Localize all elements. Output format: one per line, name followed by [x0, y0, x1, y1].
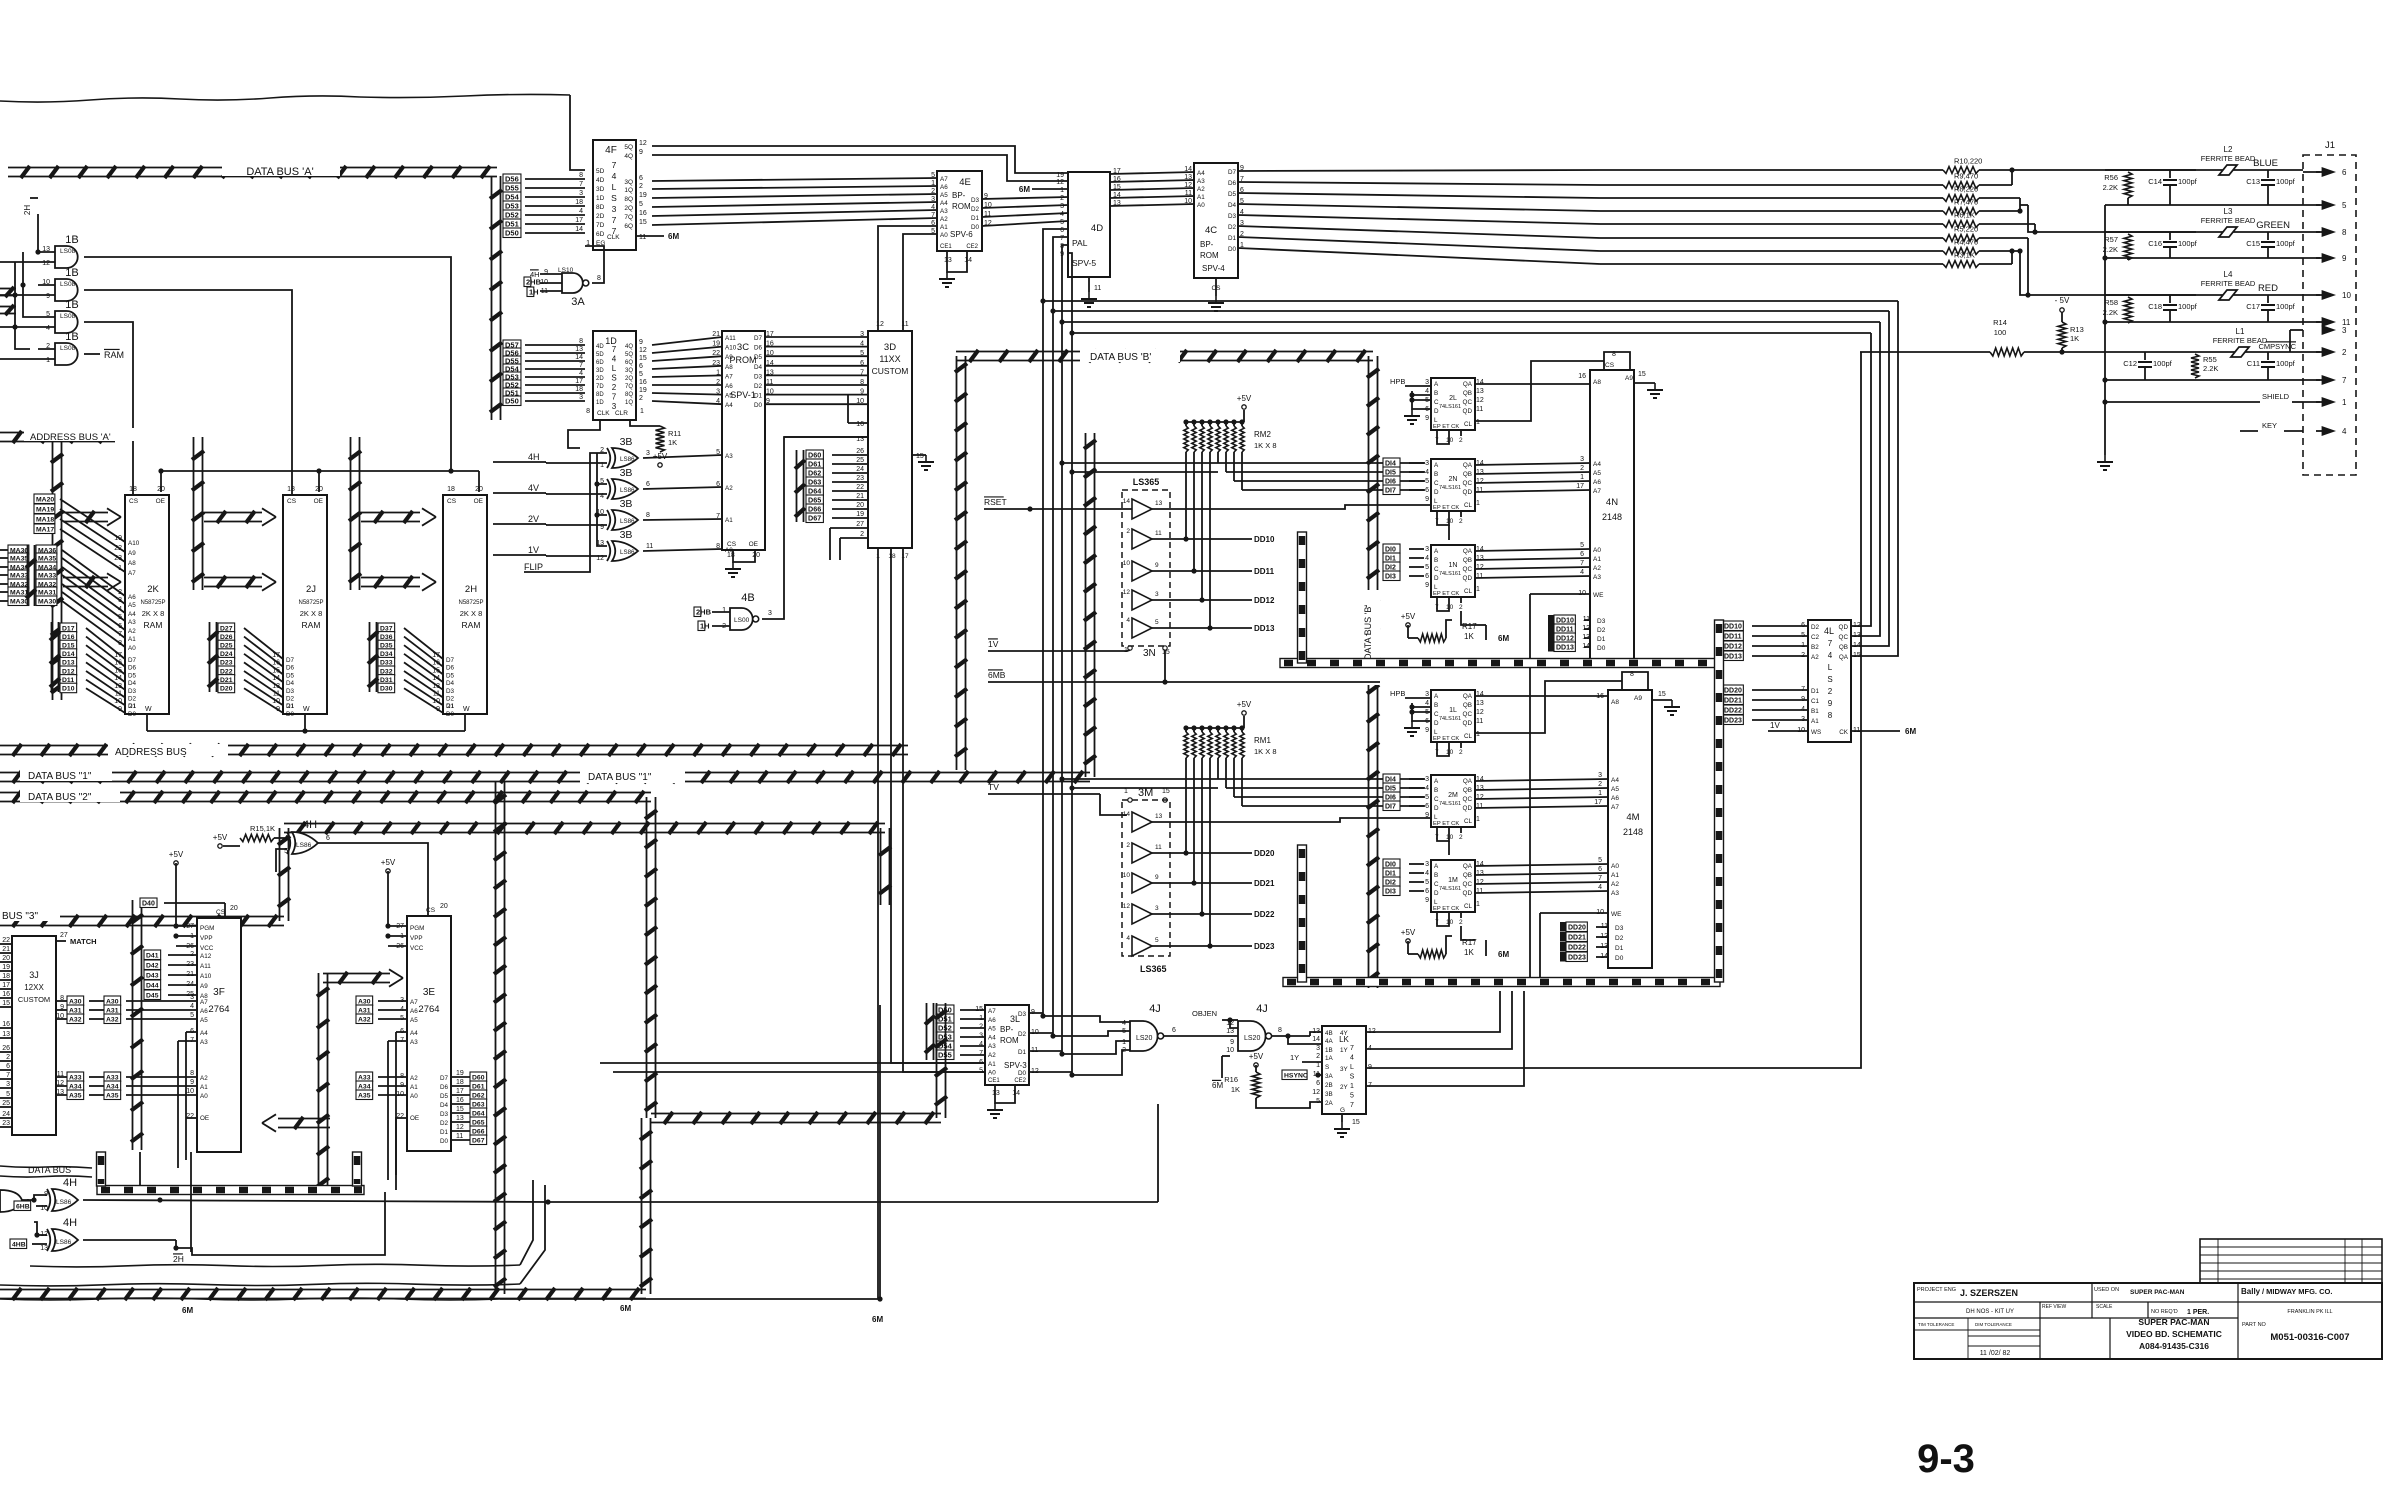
svg-text:QA: QA: [1839, 654, 1849, 661]
gate 4H-b0 partial: [0, 1190, 22, 1212]
net label D52 (1D): [503, 380, 521, 390]
svg-text:4: 4: [931, 204, 935, 211]
svg-text:L: L: [1434, 899, 1438, 906]
svg-text:A0: A0: [128, 645, 136, 652]
svg-text:6: 6: [118, 623, 122, 630]
svg-text:SPV-1: SPV-1: [730, 390, 756, 400]
svg-text:D1: D1: [971, 215, 980, 222]
svg-text:100pf: 100pf: [2178, 177, 2198, 186]
bus vert x500: [495, 782, 497, 1294]
svg-text:A10: A10: [725, 345, 737, 352]
bus arrow 2J data: [204, 577, 262, 579]
svg-text:A5: A5: [1593, 470, 1601, 477]
svg-text:S: S: [1325, 1064, 1329, 1071]
ground 1L inputs: [1412, 703, 1431, 721]
svg-text:WE: WE: [1611, 911, 1622, 918]
svg-text:19: 19: [456, 1070, 464, 1077]
svg-text:9: 9: [1425, 582, 1429, 589]
svg-text:2: 2: [1122, 1047, 1126, 1054]
svg-text:D4: D4: [128, 680, 137, 687]
wire 1M Q1 to 4M: [1475, 873, 1608, 875]
svg-text:11: 11: [1185, 190, 1192, 197]
svg-text:9: 9: [190, 1079, 194, 1086]
svg-text:1: 1: [1060, 187, 1064, 194]
svg-text:6M: 6M: [1498, 950, 1509, 959]
svg-text:D0: D0: [754, 402, 763, 409]
label DATA BUS B: [1080, 349, 1180, 362]
svg-text:VPP: VPP: [200, 935, 213, 942]
svg-text:7Q: 7Q: [624, 214, 633, 221]
svg-text:LS86: LS86: [620, 549, 635, 556]
svg-text:7Q: 7Q: [625, 384, 633, 390]
svg-text:1K: 1K: [668, 438, 677, 447]
svg-text:20: 20: [2, 955, 10, 962]
svg-text:DATA BUS "1": DATA BUS "1": [28, 771, 92, 782]
svg-text:2N: 2N: [1449, 476, 1458, 483]
svg-text:16: 16: [2, 991, 10, 998]
svg-text:D0: D0: [1018, 1070, 1027, 1077]
svg-text:3: 3: [716, 389, 720, 396]
IC 2N 74LS161: [1431, 459, 1475, 511]
wire 3B chain: [597, 453, 607, 484]
svg-text:2: 2: [1580, 465, 1584, 472]
bus 3L vertical: [936, 1003, 938, 1118]
svg-text:4: 4: [612, 355, 617, 364]
svg-text:1: 1: [1476, 586, 1480, 593]
svg-text:- 5V: - 5V: [2055, 296, 2070, 305]
svg-text:4: 4: [579, 370, 583, 377]
CS bracket 4N: [1604, 352, 1630, 370]
svg-text:D1: D1: [1597, 636, 1606, 643]
wire 1D-2Q to 3C: [652, 375, 722, 377]
svg-text:D0: D0: [128, 711, 137, 718]
wire 1D-3Q to 3C: [652, 366, 722, 369]
svg-text:D0: D0: [286, 711, 295, 718]
svg-text:8: 8: [716, 543, 720, 550]
svg-text:SHIELD: SHIELD: [2262, 392, 2290, 401]
svg-text:FLIP: FLIP: [524, 562, 543, 572]
svg-text:A4: A4: [1611, 777, 1619, 784]
svg-text:DD11: DD11: [1724, 633, 1742, 640]
wire 1D-1Q to 3C: [652, 401, 722, 404]
svg-text:B: B: [1434, 702, 1438, 709]
svg-text:7: 7: [1828, 639, 1833, 648]
svg-text:A4: A4: [1197, 170, 1205, 177]
svg-text:+5V: +5V: [1249, 1052, 1264, 1061]
svg-text:3C: 3C: [737, 342, 749, 353]
svg-text:A4: A4: [988, 1034, 996, 1041]
svg-text:RAM: RAM: [462, 620, 481, 630]
svg-text:3: 3: [1316, 1045, 1320, 1052]
wire 3D bottom pin1 down: [877, 548, 879, 1299]
svg-text:9: 9: [1425, 812, 1429, 819]
svg-text:QD: QD: [1463, 408, 1473, 415]
svg-text:WE: WE: [1593, 592, 1604, 599]
resistor R6,1K: [1943, 221, 1979, 228]
tag DD11 (4N): [1548, 624, 1554, 634]
svg-text:ADDRESS BUS: ADDRESS BUS: [115, 747, 187, 758]
svg-text:25: 25: [856, 457, 864, 464]
svg-text:DI7: DI7: [1385, 487, 1396, 494]
wire 3M-2 out: [1152, 852, 1252, 854]
bus leg A x57: [52, 441, 54, 700]
svg-text:R56: R56: [2104, 173, 2118, 182]
svg-text:6Q: 6Q: [625, 360, 633, 366]
svg-text:A6: A6: [1593, 479, 1601, 486]
svg-text:QC: QC: [1463, 711, 1473, 718]
svg-text:A32: A32: [69, 1016, 82, 1023]
svg-text:5: 5: [6, 1091, 10, 1098]
svg-text:11: 11: [1155, 844, 1162, 851]
svg-text:D54: D54: [505, 192, 520, 201]
svg-text:1A: 1A: [1325, 1055, 1334, 1062]
svg-text:A35: A35: [106, 1092, 119, 1099]
wire 3M-1 out: [1152, 818, 1431, 822]
svg-text:1B: 1B: [65, 267, 78, 279]
svg-text:1: 1: [1122, 1039, 1126, 1046]
wire 3C-D1 to 3D: [765, 394, 868, 396]
ground 4D: [1088, 277, 1090, 292]
svg-text:D2: D2: [446, 696, 455, 703]
label ADDRESS BUS A: [24, 428, 136, 441]
svg-text:9: 9: [1425, 496, 1429, 503]
svg-text:13: 13: [272, 683, 280, 690]
svg-text:D1: D1: [1018, 1049, 1027, 1056]
wire 3N-5 out: [1152, 627, 1252, 629]
bus bottom: [0, 1289, 646, 1291]
svg-text:D2: D2: [971, 206, 980, 213]
bus BUS 3: [0, 916, 284, 918]
svg-text:DATA BUS "1": DATA BUS "1": [588, 772, 652, 783]
svg-text:4: 4: [716, 398, 720, 405]
net label D55 (3L): [936, 1050, 954, 1060]
svg-text:R5,220: R5,220: [1954, 225, 1978, 234]
labels A30-A32 (3J out): [67, 996, 84, 1006]
svg-text:EP ET CK: EP ET CK: [1433, 424, 1459, 430]
svg-text:1: 1: [1598, 790, 1602, 797]
wire to J1 pin 11: [2303, 321, 2320, 323]
svg-text:A9: A9: [725, 354, 733, 361]
svg-text:4: 4: [1060, 211, 1064, 218]
svg-text:A2: A2: [200, 1075, 208, 1082]
svg-text:3: 3: [646, 450, 650, 457]
svg-text:13: 13: [114, 683, 122, 690]
wire to J1 pin 2: [2303, 351, 2320, 353]
XOR gate 4H (3E CS): [292, 832, 318, 854]
svg-text:DD13: DD13: [1556, 644, 1574, 651]
resistor R10,220: [1943, 167, 1979, 174]
svg-text:6: 6: [2342, 168, 2347, 177]
svg-text:24: 24: [2, 1111, 10, 1118]
svg-text:22: 22: [396, 1113, 404, 1120]
svg-text:MA33: MA33: [10, 572, 28, 579]
svg-text:LS08: LS08: [60, 248, 76, 255]
svg-text:12: 12: [1476, 564, 1484, 571]
ground 4N A9: [1634, 382, 1655, 384]
wire 3N-1 out to counters: [1152, 505, 1431, 509]
buffer 3N-5: [1132, 618, 1152, 638]
svg-text:DI3: DI3: [1385, 573, 1396, 580]
svg-text:C18: C18: [2148, 302, 2162, 311]
svg-text:/ MIDWAY MFG. CO.: / MIDWAY MFG. CO.: [2262, 1287, 2332, 1296]
svg-text:A4: A4: [725, 402, 733, 409]
svg-text:L1: L1: [2236, 327, 2245, 336]
svg-text:+5V: +5V: [169, 850, 184, 859]
svg-text:C: C: [1434, 399, 1439, 406]
IC 2H RAM: [443, 495, 487, 714]
svg-text:2K X 8: 2K X 8: [142, 609, 165, 618]
svg-text:5D: 5D: [596, 168, 605, 175]
svg-text:D2: D2: [286, 696, 295, 703]
svg-text:100pf: 100pf: [2153, 359, 2173, 368]
svg-text:A5: A5: [1611, 786, 1619, 793]
svg-text:A2: A2: [1811, 654, 1819, 661]
wire video line 6 from 4C: [1238, 237, 1600, 251]
svg-text:D65: D65: [808, 495, 821, 504]
svg-text:5: 5: [1155, 619, 1159, 626]
svg-text:5: 5: [1122, 1028, 1126, 1035]
svg-text:12: 12: [1123, 903, 1131, 910]
svg-text:15: 15: [1162, 788, 1170, 795]
svg-text:L: L: [1350, 1064, 1354, 1071]
svg-text:13: 13: [992, 1090, 1000, 1097]
svg-text:QA: QA: [1463, 462, 1473, 469]
net label D66: [806, 504, 823, 514]
svg-text:A6: A6: [128, 594, 136, 601]
svg-text:15: 15: [272, 667, 280, 674]
IC 2L 74LS161: [1431, 378, 1475, 430]
wire RM2-4 to DI row: [1217, 452, 1219, 463]
svg-text:D0: D0: [1615, 955, 1624, 962]
capacitor C16 100pf: [2169, 232, 2171, 240]
svg-text:A1: A1: [1611, 872, 1619, 879]
svg-text:18: 18: [575, 386, 583, 393]
svg-text:D6: D6: [754, 345, 763, 352]
svg-text:5: 5: [1316, 1098, 1320, 1105]
svg-text:LS86: LS86: [56, 1199, 72, 1206]
svg-text:5: 5: [1425, 478, 1429, 485]
svg-text:11: 11: [1476, 803, 1483, 810]
svg-text:D60: D60: [472, 1074, 485, 1081]
svg-text:A2: A2: [410, 1075, 418, 1082]
bus leg x646 down: [641, 1118, 643, 1294]
svg-text:1K: 1K: [2070, 334, 2079, 343]
svg-text:2Q: 2Q: [625, 376, 633, 382]
svg-text:1 PER.: 1 PER.: [2187, 1309, 2209, 1316]
svg-text:7: 7: [612, 160, 617, 170]
svg-text:9: 9: [1425, 897, 1429, 904]
svg-text:DATA BUS 'B': DATA BUS 'B': [1090, 352, 1151, 363]
svg-text:A9: A9: [1634, 695, 1642, 702]
wire red group: [1979, 237, 2028, 239]
wire RM2-3 to DD13: [1209, 452, 1211, 628]
svg-text:5: 5: [1425, 879, 1429, 886]
wire vert d2: [1052, 311, 1054, 1036]
svg-text:2.2K: 2.2K: [2203, 364, 2218, 373]
svg-text:4D: 4D: [596, 344, 604, 350]
wire 4D pin6 bundle: [1043, 229, 1898, 301]
svg-text:D1: D1: [754, 393, 763, 400]
svg-text:1: 1: [722, 607, 726, 614]
svg-text:A34: A34: [106, 1083, 119, 1090]
resistor pack RM2 1KX8: [1185, 422, 1187, 426]
svg-text:4B: 4B: [741, 592, 754, 604]
svg-text:DI4: DI4: [1385, 776, 1396, 783]
svg-text:C1: C1: [1811, 698, 1820, 705]
svg-text:A2: A2: [1593, 565, 1601, 572]
svg-text:4M: 4M: [1626, 812, 1639, 823]
svg-text:A9: A9: [128, 550, 136, 557]
svg-text:TV: TV: [988, 782, 999, 792]
wire 2N Q3 to 4N: [1475, 490, 1590, 492]
svg-text:A1: A1: [1593, 556, 1601, 563]
svg-text:11: 11: [1476, 406, 1483, 413]
svg-text:2: 2: [1459, 834, 1463, 841]
wire 4D out0 to 4C: [1110, 172, 1194, 174]
svg-text:MA35: MA35: [10, 555, 28, 562]
wire to J1 pin 1: [2303, 401, 2320, 403]
svg-text:9: 9: [1230, 1039, 1234, 1046]
svg-text:8: 8: [118, 640, 122, 647]
svg-text:4: 4: [1828, 651, 1833, 660]
tag DD22 (4L): [1716, 705, 1722, 715]
wire stub x191: [190, 1152, 192, 1252]
svg-text:12: 12: [639, 347, 647, 354]
svg-text:ROM: ROM: [1000, 1036, 1019, 1045]
svg-text:2: 2: [2342, 348, 2347, 357]
svg-text:MA31: MA31: [10, 589, 28, 596]
svg-text:1V: 1V: [1770, 721, 1780, 730]
svg-text:16: 16: [1596, 693, 1604, 700]
svg-text:12: 12: [1853, 622, 1861, 629]
wire video line 2 from 4C: [1238, 193, 1600, 198]
svg-text:2K: 2K: [147, 584, 159, 595]
svg-text:3: 3: [1155, 905, 1159, 912]
wire 3D pin27: [830, 527, 868, 529]
svg-text:C: C: [1434, 711, 1439, 718]
svg-text:13: 13: [1155, 500, 1163, 507]
svg-text:QD: QD: [1463, 890, 1473, 897]
svg-text:L3: L3: [2224, 207, 2233, 216]
svg-text:2: 2: [1459, 919, 1463, 926]
svg-text:A1: A1: [200, 1084, 208, 1091]
svg-text:11: 11: [273, 691, 280, 698]
svg-text:A6: A6: [940, 184, 948, 191]
wire 3B-3 out to 3C: [643, 519, 722, 520]
svg-text:27: 27: [856, 521, 864, 528]
wire RM2-6 to DI row: [1233, 452, 1235, 481]
svg-text:D4: D4: [754, 364, 763, 371]
svg-text:Bally: Bally: [2241, 1287, 2261, 1296]
svg-text:R58: R58: [2104, 298, 2118, 307]
svg-text:C13: C13: [2246, 177, 2260, 186]
bus leg x885: [880, 828, 882, 905]
svg-text:A9: A9: [1625, 375, 1633, 382]
IC 4E BP-ROM SPV-6: [937, 171, 982, 251]
svg-text:DD12: DD12: [1556, 635, 1574, 642]
svg-text:D7: D7: [754, 335, 763, 342]
svg-text:DD13: DD13: [1254, 624, 1275, 633]
svg-text:16: 16: [2, 1021, 10, 1028]
svg-text:FERRITE BEAD: FERRITE BEAD: [2201, 216, 2256, 225]
svg-text:A1: A1: [988, 1061, 996, 1068]
svg-text:D6: D6: [1228, 180, 1237, 187]
wire 3D top pin12 to 4E A1: [878, 226, 937, 331]
svg-text:20: 20: [230, 905, 238, 912]
svg-text:4V: 4V: [528, 483, 539, 493]
svg-text:CUSTOM: CUSTOM: [18, 995, 50, 1004]
svg-text:MA33: MA33: [38, 572, 56, 579]
bus DATA BUS 2: [0, 792, 651, 794]
svg-text:16: 16: [639, 210, 647, 217]
svg-text:20: 20: [440, 903, 448, 910]
svg-text:OE: OE: [314, 498, 324, 505]
IC 1N 74LS161: [1431, 545, 1475, 597]
capacitor C18 100pf: [2169, 295, 2171, 303]
svg-text:D0: D0: [1597, 645, 1606, 652]
svg-text:13: 13: [40, 1245, 48, 1252]
wire 4F-6Q to 4E: [652, 218, 937, 225]
svg-text:14: 14: [1476, 861, 1484, 868]
bus vert x323: [318, 973, 320, 1195]
ground LK: [1341, 1114, 1343, 1122]
blackbus stub right: [353, 1152, 362, 1186]
svg-text:DI7: DI7: [1385, 803, 1396, 810]
svg-text:19: 19: [856, 511, 864, 518]
wire 1D-4Q to 3C: [652, 337, 722, 345]
svg-text:13: 13: [944, 257, 952, 264]
svg-text:2: 2: [1126, 842, 1130, 849]
svg-text:1D: 1D: [596, 195, 605, 202]
svg-text:A6: A6: [1611, 795, 1619, 802]
svg-text:DD22: DD22: [1568, 944, 1586, 951]
tags DI0-DI3 (1N): [1383, 544, 1400, 554]
tag DD20 (4L): [1716, 685, 1722, 695]
wire 3C-D2 to 3D: [765, 384, 868, 386]
svg-text:6D: 6D: [596, 231, 605, 238]
labels 4H 4V 2V 1V FLIP wires: [493, 461, 528, 463]
svg-text:3D: 3D: [596, 186, 605, 193]
svg-text:A10: A10: [200, 973, 212, 980]
svg-text:17: 17: [575, 378, 583, 385]
svg-text:QB: QB: [1463, 390, 1472, 397]
svg-text:7D: 7D: [596, 384, 604, 390]
svg-text:A5: A5: [725, 393, 733, 400]
svg-text:1Q: 1Q: [624, 187, 633, 194]
svg-text:7: 7: [1580, 560, 1584, 567]
resistor R56 2.2K: [2124, 172, 2132, 198]
svg-text:11: 11: [1476, 888, 1483, 895]
svg-text:13: 13: [1226, 1028, 1234, 1035]
wire 3F OE: [186, 1117, 197, 1119]
svg-text:D7: D7: [440, 1075, 449, 1082]
resistor R11 1K: [630, 420, 660, 426]
svg-text:D2: D2: [1811, 624, 1820, 631]
svg-text:R14: R14: [1993, 318, 2007, 327]
svg-text:15: 15: [1853, 652, 1861, 659]
net label D52: [503, 210, 521, 220]
svg-text:3: 3: [1580, 456, 1584, 463]
svg-text:DIM TOLERANCE: DIM TOLERANCE: [1975, 1322, 2012, 1327]
svg-text:DATA BUS 'B': DATA BUS 'B': [1363, 605, 1373, 660]
svg-text:6: 6: [639, 363, 643, 370]
net label D52 (3L): [936, 1023, 954, 1033]
svg-text:6: 6: [646, 481, 650, 488]
svg-text:14: 14: [272, 675, 280, 682]
resistor R7,470: [1943, 208, 1979, 215]
label DATA BUS 1 left: [20, 768, 112, 781]
bus leg x651: [646, 797, 648, 1118]
